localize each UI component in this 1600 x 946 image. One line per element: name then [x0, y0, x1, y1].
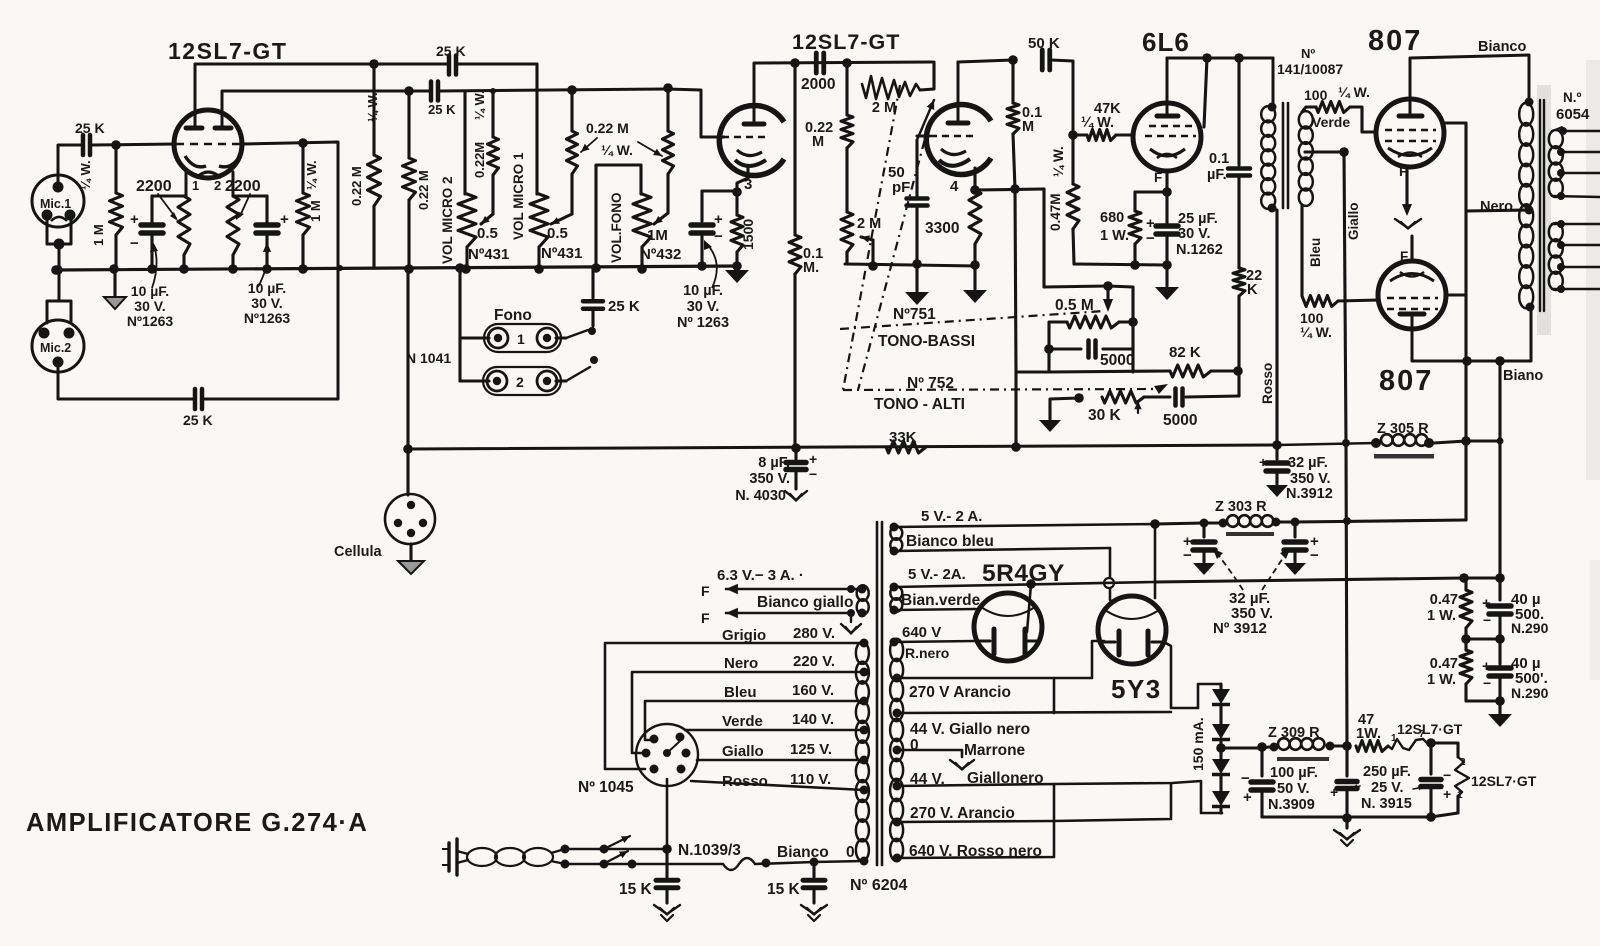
svg-text:N.3909: N.3909: [1268, 797, 1315, 813]
capacitor 10uF (left): [130, 196, 163, 269]
wire cath1 tee: [152, 194, 186, 197]
svg-text:10 µF.: 10 µF.: [683, 283, 723, 299]
label Marrone: [964, 742, 1026, 759]
node bus dots: [51, 264, 308, 275]
svg-text:TONO - ALTI: TONO - ALTI: [874, 396, 965, 413]
svg-text:+: +: [280, 211, 289, 228]
winding T3 HV: [890, 639, 903, 861]
label 0.22M railB: [416, 170, 431, 210]
label 0.22M V4: [805, 120, 833, 150]
wire mic1 to mic2: [58, 244, 61, 300]
svg-text:Fono: Fono: [494, 307, 532, 324]
svg-text:44 V. Giallo nero: 44 V. Giallo nero: [910, 721, 1030, 738]
switch lever jack2: [556, 367, 590, 381]
svg-text:N.1262: N.1262: [1176, 242, 1223, 258]
label 5V-2A 2: [908, 566, 966, 583]
svg-text:25 µF.: 25 µF.: [1178, 211, 1218, 227]
wiper arrow FONO: [654, 213, 668, 224]
svg-text:30 V.: 30 V.: [1178, 226, 1211, 242]
svg-text:2 M: 2 M: [872, 100, 896, 116]
switch lever upper: [606, 836, 630, 848]
capacitor 25K (mic1): [75, 120, 105, 155]
capacitor 25K (fono mute): [583, 269, 640, 326]
label Bleu 160V: [724, 682, 834, 701]
wire pot MICRO1 top from rail A: [535, 192, 538, 195]
label Z303R: [1215, 499, 1267, 515]
label ¼W right: [304, 160, 319, 190]
tube V3 plate bar: [744, 107, 764, 124]
svg-text:3300: 3300: [925, 220, 959, 237]
wire Rosso tap: [691, 781, 869, 795]
pointer 2200 left: [158, 194, 178, 221]
ground (30K): [1039, 420, 1061, 432]
svg-text:Bianco bleu: Bianco bleu: [906, 533, 994, 550]
tube V4 label 4: [950, 178, 959, 195]
wire cath to 10uF: [702, 189, 737, 192]
capacitor 5000 (bass): [1049, 341, 1133, 358]
label 807-2 F: [1400, 249, 1408, 264]
label 22K: [1246, 268, 1262, 298]
wire 5V line 2: [894, 582, 1155, 587]
capacitor 10uF (right): [256, 196, 289, 269]
svg-text:2200: 2200: [225, 178, 261, 195]
label 0.47M: [1048, 193, 1063, 231]
svg-text:Nº431: Nº431: [468, 246, 509, 263]
svg-text:Z 303 R: Z 303 R: [1215, 499, 1267, 515]
node rail F dots: [1202, 53, 1244, 63]
svg-text:50 V.: 50 V.: [1277, 781, 1310, 797]
capacitor 250uF left: [1330, 746, 1357, 817]
capacitor 15K (2): [803, 862, 825, 903]
svg-text:1 M: 1 M: [91, 224, 106, 246]
svg-text:15 K: 15 K: [619, 881, 653, 898]
ground (32uF A): [1193, 563, 1215, 575]
svg-text:¼ W.: ¼ W.: [1081, 115, 1114, 131]
tube V1 pin label 2: [214, 178, 221, 193]
svg-text:12SL7·GT: 12SL7·GT: [1397, 721, 1463, 737]
label 40u (2): [1511, 655, 1549, 701]
node rail D dots: [1130, 260, 1140, 270]
wire 0 Marrone: [893, 746, 963, 758]
svg-text:160 V.: 160 V.: [792, 682, 834, 699]
photocell Cellula: [385, 494, 435, 544]
svg-text:Verde: Verde: [722, 713, 763, 730]
label 807-1 F: [1399, 164, 1407, 179]
svg-text:¼ W.: ¼ W.: [472, 90, 487, 120]
wire 250uF bottom: [1347, 815, 1431, 818]
label 0.47 1W (1): [1427, 592, 1458, 624]
switch contact dots: [588, 327, 598, 364]
core Z303R: [1226, 532, 1274, 536]
label N1039/3: [678, 842, 741, 859]
label Verde 140V: [722, 711, 834, 730]
label 40u (1): [1511, 591, 1549, 636]
wire mains upper: [561, 845, 668, 854]
node diode mid: [1216, 742, 1267, 753]
svg-text:32 µF.: 32 µF.: [1288, 455, 1328, 471]
capacitor 2000 (coupling): [801, 53, 835, 93]
svg-text:N.290: N.290: [1511, 620, 1549, 636]
switch lever jack1: [556, 330, 588, 338]
potentiometer VOL MICRO 2 0.5M: [458, 194, 476, 269]
svg-text:25 K: 25 K: [436, 43, 466, 59]
svg-text:2000: 2000: [801, 76, 835, 93]
svg-text:2: 2: [1460, 757, 1466, 768]
wire rail A to 25K cap: [375, 63, 448, 66]
wire rail B cont: [440, 89, 667, 91]
wire fono jack common: [455, 263, 465, 381]
label VOL MICRO 1: [511, 152, 526, 240]
text 10uF V3 block: [677, 283, 729, 331]
wire 82K run: [1049, 371, 1170, 372]
pointer 250 right: [1413, 786, 1424, 791]
label 270V Arancio 2: [910, 805, 1015, 822]
node rail B x409: [404, 86, 414, 96]
svg-text:680: 680: [1100, 210, 1124, 226]
label 0.22M quarterW shared: [586, 120, 633, 158]
wire 5Y3 fil right pin: [1150, 519, 1160, 598]
capacitor 25K (rail B): [428, 82, 456, 118]
resistor 0.47 1W (1): [1460, 578, 1472, 639]
svg-text:N. 4030: N. 4030: [735, 488, 786, 504]
label 270V Arancio 1: [909, 684, 1011, 701]
wiper arrow 30K: [1134, 401, 1141, 413]
svg-text:VOL.FONO: VOL.FONO: [609, 193, 624, 264]
svg-text:Cellula: Cellula: [334, 544, 382, 560]
label 15K 2: [767, 881, 801, 898]
label N 6054: [1556, 90, 1590, 123]
pointer 10uF V3: [704, 240, 717, 288]
wire Rosso drop: [1275, 210, 1278, 445]
core Z305R: [1374, 454, 1434, 459]
label 47K: [1081, 101, 1121, 131]
label Giallo 125V: [722, 741, 832, 760]
svg-text:44 V.: 44 V.: [910, 771, 945, 788]
tube 5Y3 envelope: [1098, 596, 1166, 664]
wire T2 taps g2: [1552, 220, 1600, 293]
resistor 1500 (V3 cathode): [731, 192, 743, 266]
svg-text:+: +: [1443, 786, 1451, 802]
wire V1 cathode2 down: [232, 172, 235, 196]
svg-text:1: 1: [1457, 790, 1463, 801]
title AMPLIFICATORE: [26, 809, 368, 837]
svg-text:6054: 6054: [1556, 106, 1590, 123]
label TONO-BASSI: [878, 333, 975, 350]
pointer 10uF right: [258, 242, 271, 287]
svg-text:Bianco giallo: Bianco giallo: [757, 594, 853, 611]
wiper 0.5M: [1103, 286, 1113, 312]
switch lever lower: [607, 851, 628, 862]
svg-text:Nº 3912: Nº 3912: [1213, 620, 1267, 637]
pointer 32uF right: [1262, 549, 1290, 590]
wire T2 taps g1: [1552, 127, 1600, 200]
wire 0.1M passes: [0, 0, 1, 1]
svg-text:Nº431: Nº431: [541, 245, 582, 262]
label Verde: [1312, 114, 1350, 130]
wire 640V line: [890, 638, 976, 647]
label 32uF 350V 3912: [1213, 590, 1273, 637]
svg-text:Giallo: Giallo: [722, 743, 764, 760]
svg-text:220 V.: 220 V.: [793, 653, 835, 670]
resistor 2200 (right): [227, 196, 239, 269]
svg-text:1W.: 1W.: [1356, 726, 1381, 742]
label 32uF rosso block: [1286, 455, 1333, 502]
ground (50pF): [905, 265, 929, 305]
svg-text:2: 2: [214, 178, 221, 193]
wire rail E: [408, 445, 1277, 449]
svg-text:N.3912: N.3912: [1286, 486, 1333, 502]
svg-text:+: +: [809, 451, 817, 467]
node rail B x668: [663, 83, 673, 93]
label Grigio 280V: [722, 625, 835, 644]
transformer T1 secondary winding: [1299, 111, 1313, 206]
label 680 1W: [1100, 210, 1129, 244]
transformer T1 primary winding: [1261, 103, 1276, 213]
svg-text:1: 1: [517, 331, 525, 347]
svg-text:1: 1: [192, 178, 199, 193]
svg-text:Giallo: Giallo: [1346, 202, 1361, 240]
resistor 0.1M (V4 grid leak): [789, 63, 801, 448]
microphone Mic.1: [32, 175, 84, 250]
svg-text:33K: 33K: [889, 429, 917, 446]
wire 807-2 screen right: [1446, 293, 1466, 296]
wire 807-1 filament ground: [1402, 167, 1412, 216]
wire 100uF bottom rail: [1262, 813, 1352, 823]
capacitor 32uF (Rosso): [1259, 445, 1288, 484]
label 12SL7GT right2: [1471, 773, 1537, 789]
label quarterW wiper: [472, 90, 487, 120]
svg-text:Mic.2: Mic.2: [40, 341, 71, 355]
label 1M no432: [640, 227, 681, 263]
wire 807-2 filament: [1410, 236, 1413, 262]
node grid right x303: [298, 138, 308, 148]
wire V1 plate2 to rail B: [222, 91, 429, 128]
ground (32uF B): [1284, 563, 1306, 575]
wire rail F to T1: [1272, 58, 1275, 107]
potentiometer VOL FONO 1M: [633, 194, 651, 269]
svg-text:82 K: 82 K: [1169, 344, 1201, 361]
svg-text:Bianco: Bianco: [1478, 39, 1526, 55]
label Bianco top: [1478, 39, 1526, 55]
node rail B x493: [490, 88, 496, 94]
svg-text:Bleu: Bleu: [1308, 238, 1323, 267]
label 100uF block: [1268, 765, 1318, 813]
svg-text:+: +: [130, 211, 139, 228]
label 2200 right: [225, 178, 261, 195]
svg-text:K: K: [1247, 282, 1258, 298]
svg-text:6L6: 6L6: [1142, 27, 1190, 57]
label 0.5 no431 (2): [541, 225, 582, 262]
wire mains lower: [561, 860, 724, 869]
label 63V 3A: [717, 567, 804, 584]
label 5000 treble: [1163, 412, 1197, 429]
winding T3 6.3V: [847, 585, 869, 618]
label 82K: [1169, 344, 1201, 361]
tube 807-2 grid dashes: [1387, 298, 1438, 309]
svg-text:Nº432: Nº432: [640, 246, 681, 263]
node bottom dots: [1462, 356, 1505, 366]
resistor 1M (right) ¼W: [297, 144, 310, 269]
resistor 0.22M ¼W (micro1 wiper): [567, 90, 578, 214]
tube 5R4GY filament arc: [981, 607, 1035, 616]
tube 6L6 label: [1142, 27, 1190, 57]
svg-text:M: M: [812, 134, 824, 150]
label N 141/10087: [1277, 46, 1343, 77]
svg-text:25 K: 25 K: [183, 412, 213, 428]
capacitor 100uF 50V: [1241, 748, 1273, 817]
svg-text:Nº1263: Nº1263: [127, 313, 174, 329]
ground cellula arrow: [398, 544, 424, 574]
resistor 680 1W: [1129, 192, 1141, 265]
label Bianco 0: [777, 844, 855, 861]
wire 40u bottom: [1466, 696, 1505, 713]
label 1500: [740, 219, 756, 250]
capacitor 8uF 350V N4030: [735, 448, 817, 504]
capacitor 40u 500 (1): [1482, 578, 1511, 639]
potentiometer 2M horizontal (V4 plate): [862, 62, 934, 99]
wire Z303R line: [1155, 523, 1223, 524]
choke Z305R: [1277, 434, 1466, 448]
ground (40u): [1488, 714, 1512, 727]
choke Z309R: [1262, 738, 1352, 751]
svg-text:2200: 2200: [136, 178, 172, 195]
tube 6L6 plate bar: [1157, 58, 1178, 116]
wire VOL FONO feed U: [596, 165, 641, 268]
node rail E x796: [791, 440, 1282, 453]
tube 807-2 plate bar: [1400, 314, 1424, 329]
wiper arrow MICRO2: [481, 214, 493, 224]
svg-text:807: 807: [1379, 365, 1433, 397]
svg-text:0.5 M: 0.5 M: [1055, 297, 1094, 314]
svg-text:12SL7-GT: 12SL7-GT: [792, 30, 900, 54]
node rail A junction x374: [369, 59, 379, 69]
svg-text:Verde: Verde: [1312, 114, 1350, 130]
label Cellula: [334, 544, 382, 560]
svg-text:¼ W.: ¼ W.: [1051, 146, 1066, 177]
resistor 22K: [1233, 268, 1245, 371]
label 250uF block: [1361, 764, 1412, 812]
wire V3 plate to rail C: [754, 62, 932, 107]
svg-text:25 K: 25 K: [608, 298, 640, 315]
pointer 32uF left: [1213, 549, 1243, 590]
label Rosso 110V: [722, 771, 831, 790]
wire Grigio: [605, 639, 869, 770]
label 0 marrone: [910, 737, 919, 754]
pointer 10uF left: [150, 242, 158, 288]
svg-text:1 M: 1 M: [308, 200, 323, 222]
svg-text:0.47: 0.47: [1430, 656, 1458, 672]
svg-text:30 V.: 30 V.: [134, 298, 165, 314]
wire 5R4GY anode top: [1026, 579, 1036, 632]
wire jack1 left: [460, 336, 489, 339]
wire 63V F line 2: [701, 608, 855, 626]
potentiometer VOL MICRO 1 0.5M: [530, 64, 548, 269]
wire V1 grid right run: [242, 142, 338, 269]
wire 44V line: [893, 782, 1055, 822]
svg-text:5 V.- 2 A.: 5 V.- 2 A.: [921, 508, 982, 525]
tube V1 plate bars: [186, 126, 231, 131]
ground (Z309 rail): [1334, 818, 1360, 846]
capacitor 5000 (treble): [1176, 371, 1240, 406]
node pot2 bottom: [461, 264, 471, 274]
diode chain: [1212, 684, 1230, 813]
svg-text:25 V.: 25 V.: [1371, 780, 1404, 796]
svg-text:Marrone: Marrone: [964, 742, 1026, 759]
pointer 250 left: [1352, 784, 1360, 789]
wire 6L6 plate rail F: [1167, 57, 1273, 60]
svg-text:0: 0: [846, 844, 855, 861]
ground 8uF: [785, 491, 807, 501]
svg-text:¼ W.: ¼ W.: [1300, 324, 1332, 340]
wire 5Y3 right plate to diodes: [1164, 642, 1221, 708]
resistor 82K: [1170, 365, 1237, 377]
svg-text:VOL MICRO 2: VOL MICRO 2: [440, 176, 455, 264]
svg-text:+: +: [1482, 658, 1491, 675]
ground (32uF rosso): [1266, 485, 1288, 497]
wire rail G: [1155, 573, 1505, 583]
svg-text:N 1041: N 1041: [406, 350, 451, 366]
label N752: [907, 375, 954, 392]
svg-text:+: +: [1243, 789, 1252, 806]
wire 63V F line 1: [701, 583, 860, 599]
svg-text:250 µF.: 250 µF.: [1363, 764, 1411, 780]
tube V3 cathode network: [732, 167, 748, 197]
tube 5Y3 label: [1111, 674, 1162, 704]
phono jack 1: [484, 324, 561, 352]
svg-text:12SL7-GT: 12SL7-GT: [168, 38, 287, 64]
svg-text:Nero: Nero: [724, 655, 758, 672]
wire bass box right: [1108, 286, 1133, 372]
tube V3 grid dashes: [722, 136, 770, 139]
resistor 3300: [969, 190, 981, 270]
label Bianco giallo: [757, 594, 853, 611]
label 150mA: [1190, 717, 1206, 771]
svg-text:350 V.: 350 V.: [1290, 471, 1331, 487]
wire Bleu tap: [645, 697, 869, 741]
wire 0.5M riser: [1016, 372, 1049, 447]
resistor 0.47M grid leak: [1067, 135, 1079, 264]
label Fono: [494, 307, 532, 324]
wire 640V bottom line: [893, 821, 1055, 863]
svg-text:280 V.: 280 V.: [793, 625, 835, 642]
label 2200 left: [136, 178, 172, 195]
label VOL.FONO: [609, 193, 624, 264]
svg-text:0.22M: 0.22M: [472, 142, 487, 178]
capacitor 50K: [1028, 35, 1060, 70]
link dashdot alti: [843, 384, 1168, 394]
svg-text:−: −: [1183, 547, 1192, 564]
node 0.5M corners: [1044, 317, 1138, 354]
svg-text:F: F: [701, 583, 710, 599]
svg-text:2: 2: [516, 374, 524, 390]
svg-text:10 µF.: 10 µF.: [248, 280, 286, 296]
resistor 47K to 6L6 grid: [1073, 130, 1133, 141]
hop circle line3: [1104, 578, 1114, 588]
node rail C dots: [790, 58, 852, 68]
label Rosso: [1260, 363, 1275, 404]
resistor 0.22M (rail A drop): [368, 64, 381, 268]
wire T1 sec bottom Bleu: [1302, 205, 1304, 301]
tube V4 12SL7-GT label: [792, 30, 900, 54]
wire 5Y3 fil left pin: [1109, 548, 1112, 600]
svg-text:0: 0: [910, 737, 919, 754]
wire jack2 left: [460, 379, 489, 382]
capacitor 25K (mic2 bottom): [183, 389, 213, 428]
text 10uF block left: [127, 283, 174, 329]
svg-text:Bleu: Bleu: [724, 684, 757, 701]
wiper arrow 2M horiz: [917, 100, 934, 140]
svg-text:Nº 1263: Nº 1263: [677, 315, 729, 331]
